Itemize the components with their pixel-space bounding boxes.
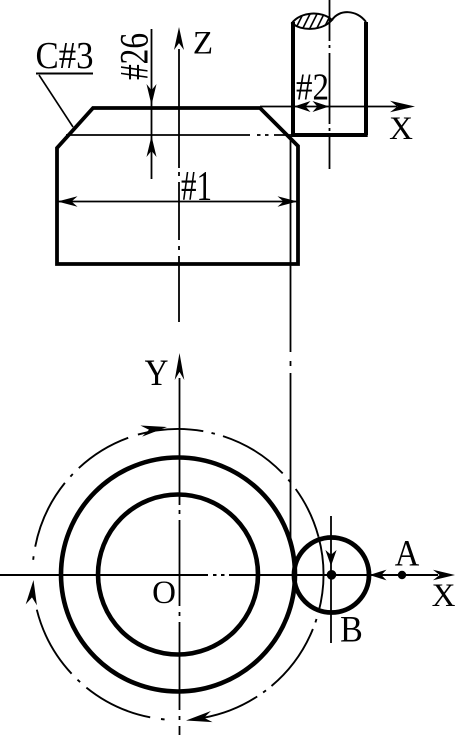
X axis arrowhead (bottom) [433, 570, 455, 580]
X axis (front view) [260, 106, 397, 108]
dimension #26 line [151, 29, 153, 179]
part bottom edge circle (middle, thick) [61, 458, 295, 692]
tool plunge arrowhead [325, 550, 336, 566]
svg-text:X: X [432, 578, 456, 614]
part top edge circle (inner) [98, 495, 258, 655]
#26 arrow up [147, 136, 157, 157]
svg-text:Z: Z [193, 26, 213, 62]
svg-text:O: O [152, 575, 176, 611]
point A dot [398, 571, 406, 579]
outer tool-path circle (dash-dot) [33, 429, 323, 719]
dimension #2 arrows [294, 101, 311, 112]
part outline (frustum front view) [57, 108, 298, 264]
tool centerline (front, x=329.5) [329, 0, 331, 169]
projection line (x=290.5 dash-dot) [290, 136, 292, 538]
X axis arrowhead (front) [390, 101, 415, 112]
tool break line with hatched lens [287, 8, 366, 32]
tool circle (bottom view) [294, 538, 369, 613]
svg-text:Y: Y [145, 352, 169, 393]
tool front view (cylinder) [291, 22, 367, 135]
horizontal X axis (bottom view, y=575) [0, 574, 438, 576]
svg-text:#1: #1 [181, 164, 212, 210]
svg-text:#26: #26 [113, 33, 157, 80]
Z axis line (x=179) [178, 49, 180, 322]
svg-text:B: B [340, 608, 363, 650]
arrow from A to tool circle (pointing left) [370, 570, 387, 581]
outer circle arrow left (clockwise up) [26, 580, 37, 605]
#1 arrow left [58, 196, 78, 207]
tool center dot [327, 570, 337, 580]
#1 arrow right [278, 196, 298, 207]
Y axis / centerline below (x=179) [179, 378, 181, 735]
dimension #1 line [58, 201, 298, 203]
svg-text:A: A [395, 532, 420, 574]
svg-text:#2: #2 [296, 65, 329, 108]
Z axis arrowhead [174, 27, 184, 50]
#26 arrow down [147, 84, 157, 105]
outer circle arrow top (clockwise) [140, 426, 167, 437]
svg-text:C#3: C#3 [36, 34, 94, 76]
svg-text:X: X [389, 111, 413, 147]
outer circle arrow bottom (clockwise left) [186, 711, 213, 722]
tool circle vertical line [330, 516, 332, 643]
Y axis arrowhead [175, 353, 185, 380]
depth line (dash-dot horizontal y=135) [66, 134, 366, 136]
